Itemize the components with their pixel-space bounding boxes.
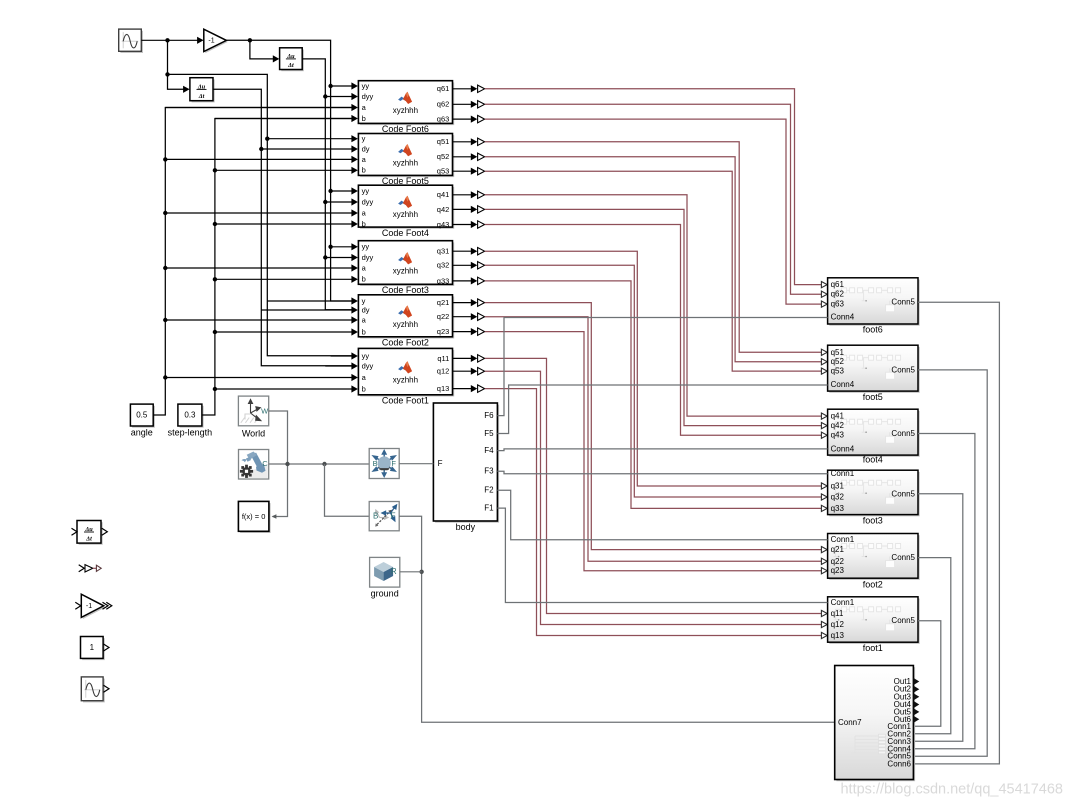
svg-text:Conn1: Conn1 bbox=[831, 598, 855, 607]
converter and signal wire q31 bbox=[453, 248, 828, 490]
svg-text:q13: q13 bbox=[437, 384, 450, 393]
svg-text:W: W bbox=[261, 406, 269, 415]
svg-text:q23: q23 bbox=[437, 327, 450, 336]
svg-text:b: b bbox=[362, 327, 366, 336]
block ground bbox=[370, 557, 400, 598]
svg-text:y: y bbox=[362, 134, 366, 143]
svg-text:f(x) = 0: f(x) = 0 bbox=[242, 512, 266, 521]
wire World to solver net bbox=[269, 411, 288, 519]
svg-text:q22: q22 bbox=[437, 312, 450, 321]
wire derivative2 output dy-bus bbox=[213, 89, 353, 366]
svg-text:body: body bbox=[456, 522, 476, 532]
block World Frame bbox=[238, 396, 269, 438]
svg-text:dyy: dyy bbox=[362, 361, 374, 370]
svg-text:q21: q21 bbox=[831, 545, 845, 554]
svg-text:q11: q11 bbox=[437, 354, 449, 363]
block Derivative 1 (upper) bbox=[280, 48, 304, 71]
subsystem block foot3 bbox=[828, 469, 920, 525]
svg-text:ground: ground bbox=[371, 588, 399, 598]
converter and signal wire q41 bbox=[453, 191, 828, 419]
svg-text:q32: q32 bbox=[437, 261, 450, 270]
svg-text:F1: F1 bbox=[484, 504, 494, 513]
wire body F6 to foot6 Conn4 bbox=[497, 318, 827, 416]
svg-text:-1: -1 bbox=[208, 38, 214, 45]
converter and signal wire q23 bbox=[453, 328, 828, 574]
svg-text:Conn4: Conn4 bbox=[831, 444, 855, 453]
converter and signal wire q52 bbox=[453, 153, 828, 365]
svg-text:xyzhhh: xyzhhh bbox=[393, 267, 418, 276]
svg-text:Code Foot2: Code Foot2 bbox=[382, 337, 429, 347]
svg-text:dyy: dyy bbox=[362, 92, 374, 101]
block Sine Wave source bbox=[119, 29, 143, 53]
converter and signal wire q11 bbox=[453, 355, 828, 617]
block 6-DOF Joint bbox=[369, 449, 399, 479]
wire foot3 Conn5 to scope subsystem bbox=[913, 494, 962, 742]
subsystem block foot4 bbox=[828, 409, 920, 464]
input wires Code Foot1 bbox=[163, 352, 358, 392]
svg-text:Δt: Δt bbox=[198, 93, 205, 100]
input wires Code Foot2 bbox=[163, 297, 358, 335]
MATLAB function block Code Foot3 bbox=[358, 241, 454, 295]
converter and signal wire q12 bbox=[453, 368, 828, 628]
subsystem block foot6 bbox=[828, 278, 920, 335]
svg-text:q53: q53 bbox=[437, 167, 450, 176]
svg-text:q31: q31 bbox=[831, 482, 845, 491]
svg-text:Conn4: Conn4 bbox=[831, 380, 855, 389]
svg-text:R: R bbox=[391, 567, 397, 576]
converter and signal wire q42 bbox=[453, 206, 828, 429]
svg-text:q53: q53 bbox=[831, 367, 845, 376]
svg-text:F6: F6 bbox=[484, 411, 494, 420]
svg-text:b: b bbox=[362, 275, 366, 284]
svg-text:Code Foot1: Code Foot1 bbox=[382, 395, 429, 405]
svg-text:foot2: foot2 bbox=[863, 579, 883, 589]
wire body F1 to foot1 Conn1 bbox=[497, 508, 827, 602]
svg-text:foot5: foot5 bbox=[863, 392, 883, 402]
wire a-bus from angle bbox=[153, 108, 353, 416]
svg-text:Conn5: Conn5 bbox=[891, 489, 915, 498]
wire joint F to body F bbox=[399, 463, 433, 465]
svg-text:q61: q61 bbox=[437, 84, 450, 93]
svg-text:q52: q52 bbox=[831, 357, 845, 366]
svg-text:q62: q62 bbox=[437, 100, 450, 109]
converter and signal wire q32 bbox=[453, 262, 828, 501]
input wires Code Foot6 bbox=[165, 82, 358, 122]
svg-text:yy: yy bbox=[362, 186, 370, 195]
converter and signal wire q13 bbox=[453, 385, 828, 639]
converter and signal wire q43 bbox=[453, 221, 828, 438]
svg-text:q23: q23 bbox=[831, 566, 845, 575]
wire junction down to Rigid Transform B bbox=[325, 464, 370, 516]
wire foot5 Conn5 to scope subsystem bbox=[913, 370, 987, 756]
svg-text:F: F bbox=[391, 512, 396, 521]
svg-text:foot3: foot3 bbox=[863, 515, 883, 525]
wire sine to gain -1 bbox=[141, 37, 203, 44]
svg-text:xyzhhh: xyzhhh bbox=[393, 159, 418, 168]
svg-text:Conn1: Conn1 bbox=[831, 469, 855, 478]
svg-text:q62: q62 bbox=[831, 290, 845, 299]
input wires Code Foot4 bbox=[163, 187, 358, 227]
svg-text:Conn4: Conn4 bbox=[831, 313, 855, 322]
svg-text:World: World bbox=[242, 428, 265, 438]
wire body F2 to foot2 Conn1 bbox=[497, 490, 827, 540]
svg-text:q21: q21 bbox=[437, 298, 450, 307]
spare Sine Wave bbox=[81, 677, 109, 702]
MATLAB function block Code Foot5 bbox=[358, 134, 454, 186]
svg-text:q33: q33 bbox=[437, 276, 450, 285]
svg-text:q12: q12 bbox=[437, 367, 450, 376]
converter and signal wire q61 bbox=[453, 85, 828, 288]
svg-text:0.3: 0.3 bbox=[184, 411, 196, 420]
subsystem block foot1 bbox=[828, 597, 920, 653]
MATLAB function block Code Foot4 bbox=[358, 185, 454, 238]
svg-text:yy: yy bbox=[362, 81, 370, 90]
svg-text:dy: dy bbox=[362, 144, 370, 153]
wire foot6 Conn5 to scope subsystem bbox=[913, 302, 999, 764]
svg-text:dyy: dyy bbox=[362, 253, 374, 262]
block constant 0.3 step-length bbox=[168, 404, 213, 438]
spare Simulink-PS converter bbox=[79, 565, 102, 572]
svg-text:xyzhhh: xyzhhh bbox=[393, 376, 418, 385]
svg-text:Δt: Δt bbox=[85, 535, 92, 542]
gain -1 (top) bbox=[204, 29, 228, 53]
svg-text:C: C bbox=[262, 459, 268, 468]
svg-text:Δt: Δt bbox=[287, 62, 294, 69]
svg-text:https://blog.csdn.net/qq_45417: https://blog.csdn.net/qq_45417468 bbox=[840, 782, 1063, 798]
svg-text:b: b bbox=[362, 166, 366, 175]
svg-text:yy: yy bbox=[362, 242, 370, 251]
svg-text:F: F bbox=[438, 459, 443, 468]
wire solver net to Conn7 of scope subsystem bbox=[399, 516, 835, 722]
svg-text:q43: q43 bbox=[437, 220, 450, 229]
block constant 0.5 angle bbox=[130, 404, 155, 438]
svg-text:q41: q41 bbox=[831, 412, 845, 421]
MATLAB function block Code Foot1 bbox=[358, 348, 454, 405]
svg-text:Conn7: Conn7 bbox=[838, 718, 862, 727]
subsystem block body bbox=[433, 403, 499, 532]
MATLAB function block Code Foot6 bbox=[358, 81, 454, 134]
svg-text:xyzhhh: xyzhhh bbox=[393, 320, 418, 329]
wire y-bus horizontal and vertical bbox=[168, 74, 354, 355]
svg-text:F2: F2 bbox=[484, 486, 494, 495]
svg-text:q43: q43 bbox=[831, 431, 845, 440]
wire gain branch to derivative1 bbox=[250, 40, 279, 62]
svg-text:y: y bbox=[362, 296, 366, 305]
converter and signal wire q51 bbox=[453, 138, 828, 355]
svg-text:Conn6: Conn6 bbox=[887, 760, 911, 769]
svg-text:b: b bbox=[362, 114, 366, 123]
wire foot4 Conn5 to scope subsystem bbox=[913, 434, 975, 749]
svg-text:q33: q33 bbox=[831, 504, 845, 513]
block Derivative 2 (lower) bbox=[190, 78, 215, 103]
svg-text:q42: q42 bbox=[831, 421, 845, 430]
converter and signal wire q22 bbox=[453, 313, 828, 564]
svg-text:q63: q63 bbox=[437, 114, 450, 123]
spare Derivative block bbox=[72, 521, 108, 545]
converter and signal wire q21 bbox=[453, 299, 828, 553]
svg-text:q63: q63 bbox=[831, 300, 845, 309]
svg-text:B: B bbox=[373, 512, 378, 521]
wire body F3 to foot3 Conn1 bbox=[497, 471, 827, 474]
wire Mechanism C to joint B with solver junctions bbox=[269, 462, 370, 466]
wire body F5 to foot5 Conn4 bbox=[497, 385, 827, 434]
svg-text:F5: F5 bbox=[484, 429, 494, 438]
svg-text:Code Foot3: Code Foot3 bbox=[382, 285, 429, 295]
svg-text:Conn5: Conn5 bbox=[891, 429, 915, 438]
block Solver f(x)=0 bbox=[238, 501, 270, 533]
wire derivative1 output dyy-bus bbox=[302, 59, 353, 310]
wire foot2 Conn5 to scope subsystem bbox=[913, 558, 950, 734]
svg-text:Code Foot6: Code Foot6 bbox=[382, 124, 429, 134]
svg-text:foot1: foot1 bbox=[863, 643, 883, 653]
svg-text:1: 1 bbox=[90, 643, 95, 652]
svg-text:b: b bbox=[362, 384, 366, 393]
svg-text:Conn1: Conn1 bbox=[831, 535, 855, 544]
converter and signal wire q62 bbox=[453, 101, 828, 298]
wire b-bus from step-length bbox=[202, 119, 353, 416]
svg-text:yy: yy bbox=[362, 351, 370, 360]
svg-text:Code Foot4: Code Foot4 bbox=[382, 228, 429, 238]
svg-text:q13: q13 bbox=[831, 631, 845, 640]
svg-text:foot4: foot4 bbox=[863, 455, 883, 465]
svg-text:Conn5: Conn5 bbox=[891, 298, 915, 307]
block Mechanism Configuration bbox=[239, 450, 269, 480]
svg-text:foot6: foot6 bbox=[863, 325, 883, 335]
svg-text:b: b bbox=[362, 219, 366, 228]
spare gain -1 bbox=[75, 594, 112, 619]
converter and signal wire q63 bbox=[453, 115, 828, 307]
svg-text:q61: q61 bbox=[831, 280, 845, 289]
svg-text:0.5: 0.5 bbox=[136, 411, 148, 420]
MATLAB function block Code Foot2 bbox=[358, 295, 454, 348]
svg-text:q11: q11 bbox=[831, 609, 844, 618]
svg-text:q31: q31 bbox=[437, 247, 450, 256]
svg-text:q52: q52 bbox=[437, 152, 450, 161]
svg-text:-1: -1 bbox=[86, 603, 92, 610]
converter and signal wire q53 bbox=[453, 168, 828, 375]
svg-text:angle: angle bbox=[131, 428, 153, 438]
converter and signal wire q33 bbox=[453, 277, 828, 511]
wire gain output to yy-bus bbox=[226, 38, 353, 301]
svg-text:Code Foot5: Code Foot5 bbox=[382, 176, 429, 186]
svg-text:F: F bbox=[391, 459, 396, 468]
subsystem block with Out and Conn ports bbox=[835, 666, 920, 782]
svg-text:q42: q42 bbox=[437, 205, 450, 214]
svg-text:q22: q22 bbox=[831, 557, 845, 566]
svg-text:q41: q41 bbox=[437, 190, 450, 199]
input wires Code Foot5 bbox=[163, 135, 358, 174]
wire sine branch down to y-bus bbox=[165, 40, 189, 93]
svg-text:B: B bbox=[373, 459, 378, 468]
svg-text:q32: q32 bbox=[831, 493, 845, 502]
input wires Code Foot3 bbox=[163, 243, 358, 283]
svg-text:Conn5: Conn5 bbox=[891, 553, 915, 562]
svg-text:dy: dy bbox=[362, 305, 370, 314]
svg-text:q51: q51 bbox=[831, 348, 845, 357]
svg-text:F4: F4 bbox=[484, 446, 494, 455]
svg-text:q51: q51 bbox=[437, 137, 450, 146]
watermark bbox=[840, 782, 1063, 798]
svg-text:Conn5: Conn5 bbox=[891, 365, 915, 374]
svg-text:xyzhhh: xyzhhh bbox=[393, 106, 418, 115]
svg-text:step-length: step-length bbox=[168, 428, 213, 438]
wire ground R to net bbox=[400, 571, 422, 573]
subsystem block foot5 bbox=[828, 345, 920, 402]
wire body F4 to foot4 Conn4 bbox=[497, 449, 827, 451]
svg-text:F3: F3 bbox=[484, 467, 494, 476]
svg-text:xyzhhh: xyzhhh bbox=[393, 210, 418, 219]
svg-text:dyy: dyy bbox=[362, 197, 374, 206]
subsystem block foot2 bbox=[828, 534, 920, 590]
svg-text:q12: q12 bbox=[831, 620, 845, 629]
wire foot1 Conn5 to scope subsystem bbox=[913, 621, 940, 727]
spare constant 1 bbox=[81, 637, 110, 661]
svg-text:Conn5: Conn5 bbox=[891, 616, 915, 625]
block Rigid Transform bbox=[369, 502, 399, 531]
